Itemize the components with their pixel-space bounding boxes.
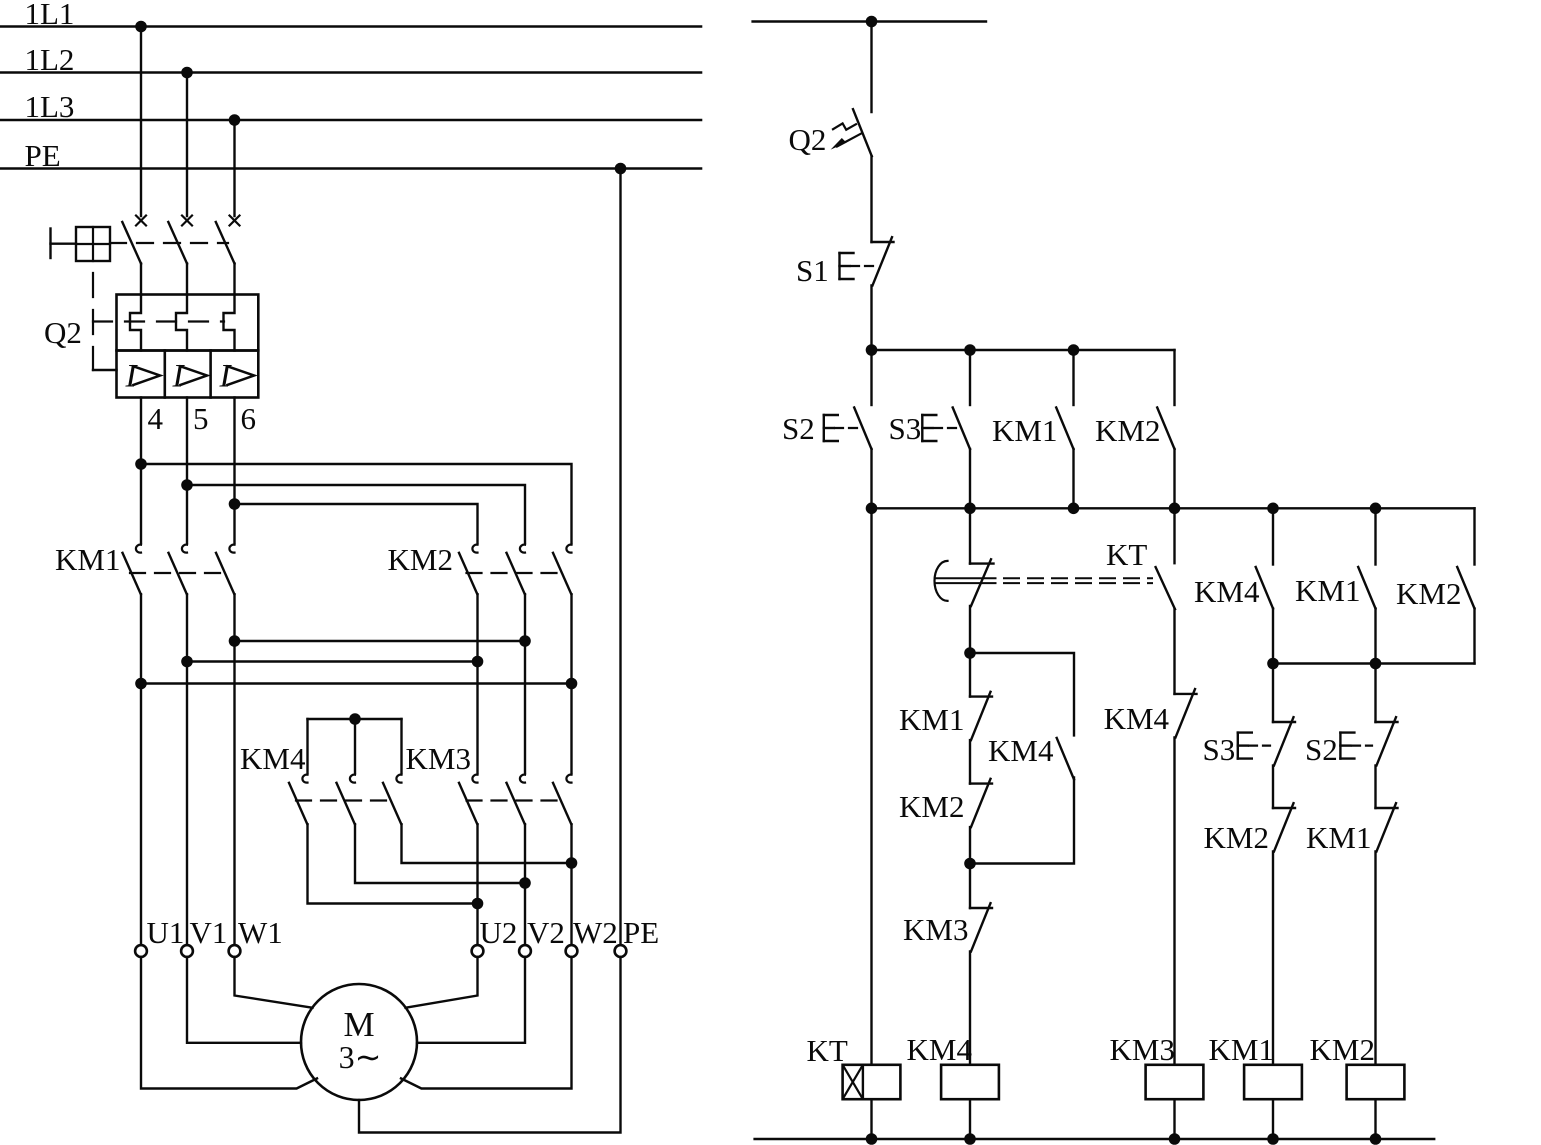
- S1 cap dashed link: [851, 265, 878, 267]
- svg-text:S2: S2: [782, 411, 815, 446]
- wire bridge drop 1: [306, 719, 308, 773]
- contact KM1 NO aux2: [1358, 567, 1375, 609]
- breaker Q2 operator box: [76, 227, 110, 261]
- svg-text:KM2: KM2: [899, 789, 964, 824]
- contact KM3 NC: [970, 907, 992, 909]
- node phase4 branch: [135, 458, 147, 470]
- wire to Q2 aux: [870, 22, 872, 113]
- contact KM1 NC interlock: [1376, 807, 1398, 809]
- wire V1 to motor: [187, 957, 301, 1043]
- pushbutton S2 NC: [1376, 721, 1398, 723]
- power bus 1L3: [0, 119, 701, 122]
- contact KM2 NO aux: [1157, 408, 1174, 450]
- node bus2 e: [1267, 503, 1279, 515]
- contact KM4 NO bypass: [1057, 738, 1074, 780]
- overload release element 2: [176, 295, 187, 351]
- terminal W2: [566, 945, 578, 957]
- svg-text:S3: S3: [889, 411, 922, 446]
- wire bypass top: [970, 653, 1074, 735]
- wire KM3 to KM4 coil: [969, 952, 971, 1065]
- contactor KM2 pole 1: [472, 545, 477, 553]
- breaker Q2 aux contact: [853, 109, 872, 156]
- wire pole3 to overload box: [233, 264, 235, 295]
- wire bus1 corner to KM2: [1173, 350, 1175, 405]
- svg-text:V2: V2: [527, 915, 565, 950]
- svg-text:1L1: 1L1: [25, 0, 75, 31]
- node bottom b: [964, 1133, 976, 1145]
- wire KM1 to bus2: [1072, 449, 1074, 508]
- node bypass bottom: [964, 858, 976, 870]
- cross link U1-W2: [141, 682, 572, 684]
- contact KM2 NC interlock: [1273, 807, 1295, 809]
- coil KM3: [1146, 1065, 1204, 1099]
- svg-text:6: 6: [241, 401, 257, 436]
- node bus1 b: [964, 344, 976, 356]
- terminal U2: [472, 945, 484, 957]
- wire KM4 pole2 to V2 line: [355, 824, 525, 883]
- wire phase4 to KM2 pole3: [141, 464, 572, 543]
- wire Q2 to S1: [870, 156, 872, 242]
- wire bypass bottom: [970, 778, 1074, 864]
- node bus1 a: [866, 344, 878, 356]
- wire KM1 pole2 down to V1: [186, 594, 188, 945]
- svg-text:KM2: KM2: [1396, 576, 1461, 611]
- wire KM1 pole3 down to W1: [233, 594, 235, 945]
- wire below box phase4: [140, 398, 142, 544]
- svg-text:KT: KT: [1106, 537, 1147, 572]
- contact KM4 NO aux: [1256, 567, 1273, 609]
- KM2 dashed linkage: [467, 572, 565, 574]
- wire KM3 pole2 to V2: [524, 824, 526, 945]
- node 1L3 tap: [229, 114, 241, 126]
- breaker Q2 trip link to overload box: [93, 369, 117, 371]
- svg-text:KM1: KM1: [992, 413, 1057, 448]
- breaker Q2 operator tick: [49, 229, 51, 259]
- wire KM1 NC2 to KM2 coil: [1374, 852, 1376, 1065]
- wire KM4 pole3 to W2 line: [402, 824, 572, 863]
- terminal U1: [135, 945, 147, 957]
- S3 NC dashed link: [1249, 744, 1270, 746]
- wire KM2 to node: [969, 827, 971, 908]
- svg-text:KM3: KM3: [1110, 1032, 1175, 1067]
- node PE tap: [615, 163, 627, 175]
- svg-text:Q2: Q2: [44, 315, 82, 350]
- svg-text:PE: PE: [25, 138, 61, 173]
- node 1L2 tap: [181, 67, 193, 79]
- contact KM1 NC: [970, 695, 992, 697]
- Q2 trip zigzag: [833, 123, 856, 129]
- pushbutton S3 NC: [1273, 721, 1295, 723]
- overload trip dashed linkage: [93, 320, 224, 322]
- svg-text:KM3: KM3: [903, 912, 968, 947]
- wire phase6 to KM2 pole1: [235, 504, 478, 543]
- wire pole2 to overload box: [186, 264, 188, 295]
- wire bridge drop 3: [400, 719, 402, 773]
- node bypass top: [964, 647, 976, 659]
- wire KT to KM1 NC: [969, 606, 971, 697]
- wire S1 to bus1: [870, 286, 872, 351]
- node 1L1 tap: [135, 21, 147, 33]
- wire S3 to bus2: [969, 449, 971, 508]
- KT delay double line: [935, 577, 996, 579]
- wire V2 to motor: [417, 957, 525, 1043]
- wire KM3 coil to bus: [1173, 1099, 1175, 1139]
- node bottom c: [1169, 1133, 1181, 1145]
- power bus PE: [0, 167, 701, 170]
- wire KM2 aux2 to bus3: [1473, 609, 1475, 664]
- svg-text:I: I: [172, 358, 186, 394]
- node bus2 b: [964, 503, 976, 515]
- wire bus2 corner to KM2 aux2: [1473, 508, 1475, 564]
- wire S2 to KM1 NC2: [1374, 766, 1376, 809]
- wire KM2 to bus2: [1173, 449, 1175, 508]
- wire 1L1 drop: [140, 27, 142, 217]
- node bus3 a: [1267, 658, 1279, 670]
- coil KM2: [1347, 1065, 1405, 1099]
- terminal V1: [181, 945, 193, 957]
- wire S3 to KM2 NC2: [1272, 766, 1274, 809]
- svg-text:1L3: 1L3: [25, 89, 75, 124]
- contactor KM2 pole 2: [520, 545, 525, 553]
- terminal PE: [615, 945, 627, 957]
- wire KM3 pole1 to U2: [476, 824, 478, 945]
- svg-text:KM2: KM2: [1095, 413, 1160, 448]
- motor M circle: [301, 984, 417, 1100]
- S2 cap: [823, 415, 825, 441]
- cross link W1-V2: [235, 640, 526, 642]
- wire bus2 to KT contact: [969, 508, 971, 563]
- wire S2 branch: [870, 350, 872, 405]
- svg-text:W2: W2: [573, 915, 618, 950]
- wire KM4 pole1 to U2 line: [308, 824, 478, 903]
- KT double dashed linkage: [1004, 577, 1152, 579]
- pushbutton S3 NO: [953, 408, 970, 450]
- wire bus3 to S3 NC: [1272, 664, 1274, 723]
- S3 NC cap: [1237, 733, 1239, 759]
- KM1 dashed linkage: [130, 572, 228, 574]
- KM4 dashed linkage: [296, 799, 395, 801]
- wire KM4 coil to bus: [969, 1099, 971, 1139]
- S1 cap: [838, 253, 840, 279]
- overload release element 3: [224, 295, 235, 351]
- coil KM4: [941, 1065, 999, 1099]
- wire KM1 aux branch: [1072, 350, 1074, 405]
- wire below box phase5: [186, 398, 188, 544]
- contactor KM1 pole 3: [229, 545, 234, 553]
- svg-text:KM4: KM4: [907, 1032, 973, 1067]
- svg-text:I: I: [219, 358, 233, 394]
- control supply line: [753, 20, 986, 22]
- wire pole1 to overload box: [140, 264, 142, 295]
- svg-text:V1: V1: [190, 915, 228, 950]
- contactor KM4 pole 1: [302, 775, 307, 783]
- pushbutton S1 NC: [872, 241, 894, 243]
- breaker Q2 pole 1: [136, 216, 146, 226]
- svg-text:S2: S2: [1305, 732, 1338, 767]
- power bus 1L1: [0, 25, 701, 28]
- node bus2 a: [866, 503, 878, 515]
- node control tap: [866, 16, 878, 28]
- wire KT coil to bus: [870, 1099, 872, 1139]
- svg-text:KM4: KM4: [240, 741, 306, 776]
- svg-text:KM1: KM1: [1306, 820, 1371, 855]
- wire S3 branch: [969, 350, 971, 405]
- control bus1: [872, 349, 1175, 351]
- overload release element 1: [130, 295, 141, 351]
- node U2 join: [472, 898, 484, 910]
- timer KT delayed contact right: [1173, 508, 1175, 563]
- wire KM1 coil to bus: [1272, 1099, 1274, 1139]
- svg-text:S3: S3: [1203, 732, 1236, 767]
- wire KM2 pole2 down: [524, 594, 526, 773]
- contact KM4 NC: [1175, 693, 1197, 695]
- wire KM2 pole3 down: [570, 594, 572, 773]
- wire 1L3 drop: [233, 120, 235, 216]
- svg-text:KM1: KM1: [1209, 1032, 1274, 1067]
- control bus2: [872, 507, 1475, 509]
- wire phase5 to KM2 pole2: [187, 485, 525, 543]
- contactor KM2 pole 3: [566, 545, 571, 553]
- svg-text:I: I: [125, 358, 139, 394]
- rail to KT coil: [870, 508, 872, 1065]
- node star point: [349, 713, 361, 725]
- breaker Q2 pole 3: [230, 216, 240, 226]
- contact KM2 NO aux2: [1457, 567, 1474, 609]
- wire U2 to motor: [406, 957, 478, 1008]
- svg-text:KM1: KM1: [55, 542, 120, 577]
- node V2 join: [519, 877, 531, 889]
- wire bus3 to S2 NC: [1374, 664, 1376, 723]
- coil KM1: [1244, 1065, 1302, 1099]
- wire bridge drop 2: [354, 719, 356, 773]
- KM4 star bridge: [308, 718, 402, 720]
- wire KM2 coil to bus: [1374, 1099, 1376, 1139]
- node phase5 branch: [181, 479, 193, 491]
- node bottom a: [866, 1133, 878, 1145]
- overload release box Q2 upper: [117, 295, 259, 351]
- breaker Q2 linkage dashed horizontal: [110, 242, 228, 244]
- coil KT: [843, 1065, 901, 1099]
- node bottom d: [1267, 1133, 1279, 1145]
- node bus2 f: [1370, 503, 1382, 515]
- svg-text:KM4: KM4: [1104, 701, 1170, 736]
- KT delay semicircle: [935, 561, 948, 601]
- svg-text:KM4: KM4: [988, 733, 1054, 768]
- svg-text:5: 5: [193, 401, 209, 436]
- wire KM1 aux2 to bus3: [1374, 609, 1376, 664]
- wire KT right to KM4 NC: [1173, 609, 1175, 694]
- S2 cap dashed link: [835, 427, 860, 429]
- svg-text:U2: U2: [480, 915, 518, 950]
- cross link V1-U2: [187, 660, 478, 662]
- power bus 1L2: [0, 71, 701, 74]
- svg-text:1L2: 1L2: [25, 42, 75, 77]
- Q2 trip arrow: [837, 133, 862, 146]
- node bus1 c: [1068, 344, 1080, 356]
- control bottom bus: [755, 1138, 1435, 1140]
- wire KM4 aux to bus3: [1272, 609, 1274, 664]
- wire KM1 pole1 down to U1: [140, 594, 142, 945]
- svg-text:KM2: KM2: [1310, 1032, 1375, 1067]
- terminal W1: [229, 945, 241, 957]
- control bus3: [1273, 662, 1475, 664]
- wire S2 to bus2: [870, 449, 872, 508]
- wire W1 to motor: [235, 957, 313, 1008]
- wire U1 to motor: [141, 957, 317, 1089]
- contactor KM3 pole 1: [472, 775, 477, 783]
- wire PE drop: [619, 169, 621, 946]
- contactor KM4 pole 2: [350, 775, 355, 783]
- node bus3 b: [1370, 658, 1382, 670]
- svg-text:KM1: KM1: [899, 702, 964, 737]
- wire PE to motor frame: [359, 957, 621, 1133]
- breaker Q2 trip linkage dashed vertical: [92, 273, 94, 370]
- wire KM2 pole1 down: [476, 594, 478, 773]
- S3 cap: [921, 415, 923, 441]
- overload box Q2 lower (I> cells): [117, 351, 259, 398]
- svg-text:KM2: KM2: [1204, 820, 1269, 855]
- node bottom e: [1370, 1133, 1382, 1145]
- S3 cap dashed link: [934, 427, 958, 429]
- contactor KM4 pole 3: [396, 775, 401, 783]
- svg-text:PE: PE: [623, 915, 659, 950]
- node phase6 branch: [229, 498, 241, 510]
- svg-text:KM4: KM4: [1194, 574, 1260, 609]
- wire KM4 NC to KM3 coil: [1173, 737, 1175, 1064]
- node bus2 d: [1169, 503, 1181, 515]
- wire KM3 pole3 to W2: [570, 824, 572, 945]
- wire 1L2 drop: [186, 73, 188, 217]
- contactor KM3 pole 3: [566, 775, 571, 783]
- KM3 dashed linkage: [467, 799, 565, 801]
- wire bus2 to KM4 aux: [1272, 508, 1274, 564]
- contactor KM3 pole 2: [520, 775, 525, 783]
- node W2 join: [566, 857, 578, 869]
- breaker Q2 pole 2: [182, 216, 192, 226]
- contactor KM1 pole 1: [136, 545, 141, 553]
- contact KM1 NO aux: [1056, 408, 1073, 450]
- svg-text:4: 4: [148, 401, 164, 436]
- S2 NC dashed link: [1352, 744, 1372, 746]
- wire KM1 to KM2: [969, 740, 971, 784]
- timer KT delayed contact left: [970, 562, 994, 564]
- wire W2 to motor: [401, 957, 572, 1089]
- svg-text:KM1: KM1: [1295, 573, 1360, 608]
- S2 NC cap: [1339, 733, 1341, 759]
- svg-text:S1: S1: [796, 253, 829, 288]
- pushbutton S2 NO: [854, 408, 871, 450]
- node bus2 c: [1068, 503, 1080, 515]
- terminal V2: [519, 945, 531, 957]
- svg-text:W1: W1: [238, 915, 283, 950]
- contact KM2 NC: [970, 782, 992, 784]
- svg-text:Q2: Q2: [789, 122, 827, 157]
- contactor KM1 pole 2: [182, 545, 187, 553]
- wire below box phase6: [233, 398, 235, 544]
- wire bus2 to KM1 aux2: [1374, 508, 1376, 564]
- wire KM2 NC2 to KM1 coil: [1272, 852, 1274, 1065]
- svg-text:KM3: KM3: [406, 741, 471, 776]
- svg-text:KM2: KM2: [388, 542, 453, 577]
- svg-text:U1: U1: [147, 915, 185, 950]
- svg-text:3∼: 3∼: [339, 1039, 382, 1075]
- svg-text:KT: KT: [807, 1033, 848, 1068]
